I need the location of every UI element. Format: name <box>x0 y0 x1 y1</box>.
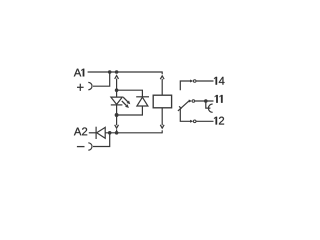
socket circle contact 11 <box>192 100 195 103</box>
wire pin stub to bottom rail <box>116 129 118 131</box>
wire bottom link from diode D2 <box>117 106 143 115</box>
contact arm (movable, common 11) <box>178 101 189 111</box>
plug pin arrow contact 14 <box>190 80 193 83</box>
wire to terminal 12 <box>196 120 214 122</box>
wire A1 horizontal rail <box>88 71 163 73</box>
terminal label 12 <box>214 117 224 125</box>
terminal label 11 <box>215 95 223 103</box>
node junction dot on A1 rail (riser from +) <box>108 70 112 74</box>
contact touch tick <box>179 106 181 108</box>
terminal label A1 <box>74 69 84 77</box>
plug pin arrow contact 12 <box>190 120 193 123</box>
test tap socket below 11 <box>206 101 211 108</box>
wire LED branch vertical <box>116 79 118 98</box>
terminal label - <box>77 146 85 148</box>
clamp socket symbol at - <box>88 143 92 150</box>
terminal label 14 <box>214 77 224 85</box>
node junction dot bottom rail (LED branch) <box>115 131 119 135</box>
diode D2 antiparallel <box>136 97 149 106</box>
wire from - clamp to riser <box>93 133 110 147</box>
contact 12 fixed NC stub <box>180 108 191 121</box>
LED D1 indicator <box>111 97 131 108</box>
plug pin arrow contact 11 <box>189 100 192 103</box>
wire to terminal 11 <box>195 100 214 102</box>
wire coil top <box>161 79 163 95</box>
plug pin arrow (relay coil top, up) <box>160 76 164 79</box>
wire A2 bottom rail <box>105 132 162 134</box>
node junction dot (LED / diode parallel top) <box>115 88 119 92</box>
wire coil bottom <box>161 108 163 125</box>
node junction dot (LED / diode parallel bottom) <box>115 113 119 117</box>
relay coil K1 <box>153 95 171 108</box>
plug pin arrow (coil +, up) <box>115 76 119 79</box>
wire coil feed corner <box>161 71 163 74</box>
wire A2 to diode D3 <box>89 132 96 134</box>
contact 14 fixed NO stub <box>180 81 191 90</box>
wire LED cathode down <box>116 105 118 125</box>
socket circle contact 12 <box>193 120 196 123</box>
plug pin arrow (coil -, down) <box>115 125 119 128</box>
clamp socket symbol at + <box>88 82 92 89</box>
node junction dot bottom rail (riser from -) <box>108 131 112 135</box>
node junction dot on 11 wire <box>204 99 208 103</box>
diode D3 series polarity protection <box>96 127 105 139</box>
socket circle contact 14 <box>193 80 196 83</box>
wire from + clamp to riser <box>93 72 110 86</box>
wire to terminal 14 <box>196 80 213 82</box>
node junction dot on A1 rail (LED branch) <box>115 70 119 74</box>
plug pin arrow (relay coil bottom, down) <box>160 125 164 128</box>
wire top link to parallel diode <box>117 90 143 97</box>
terminal label + <box>77 84 84 91</box>
terminal label A2 <box>74 127 87 135</box>
wire coil pin stub to bottom rail <box>161 130 163 133</box>
